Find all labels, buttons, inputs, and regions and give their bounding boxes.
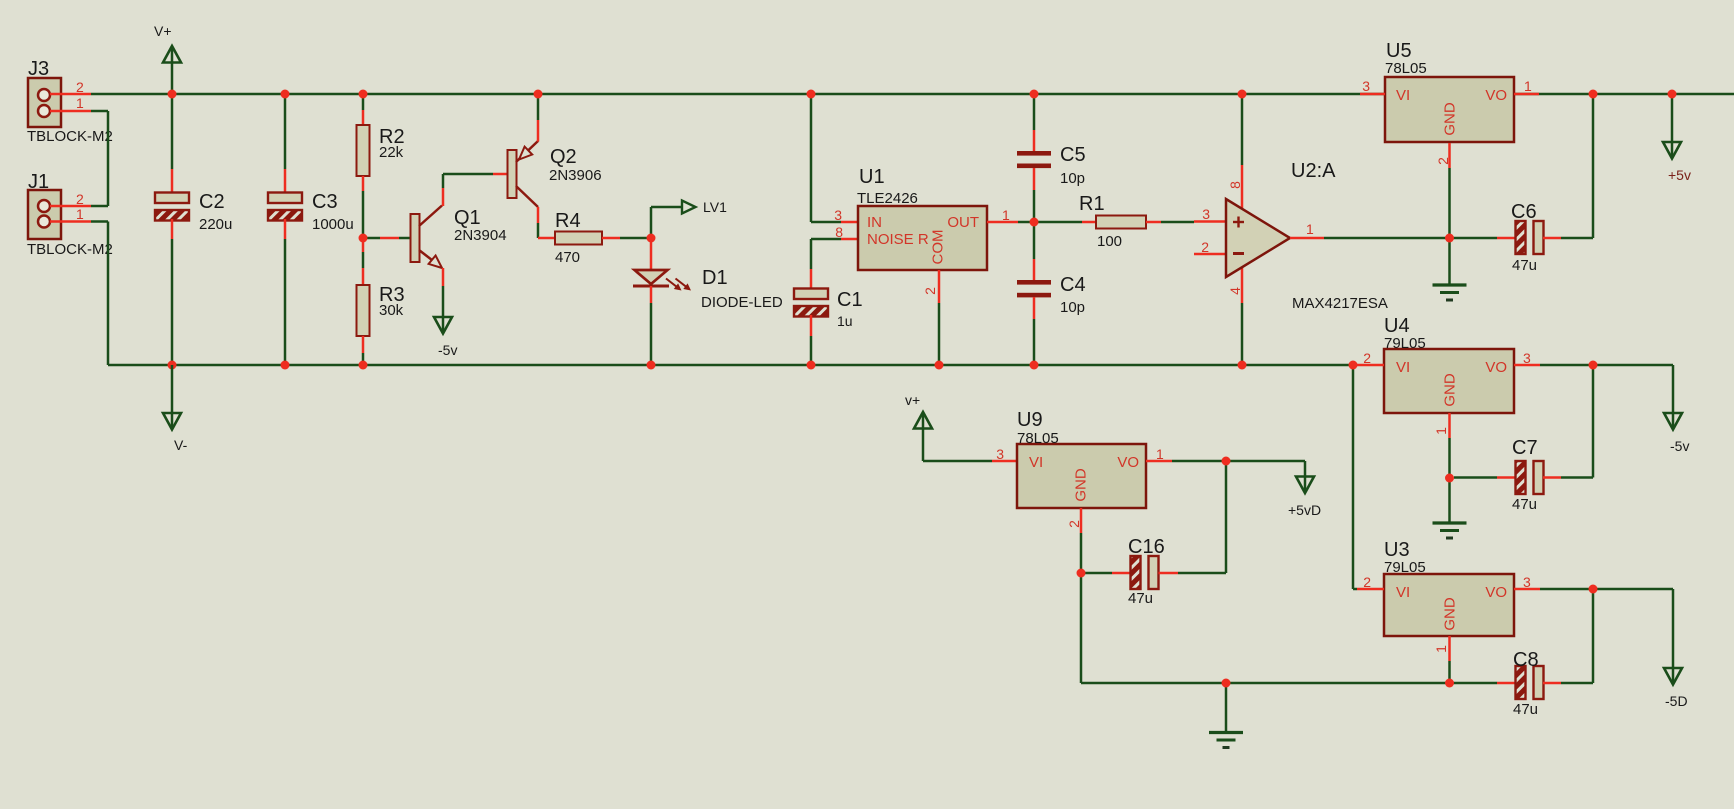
wire J3.1 to J1.2 vertical [107,111,110,206]
svg-text:U3: U3 [1384,539,1410,561]
transistor Q2 body bar [508,150,517,198]
terminal LV1 arrow [682,201,696,214]
C3 top pin [284,169,287,194]
Q2 collector line [516,186,538,207]
wire -5D stub [1672,589,1675,684]
U2 pin 2 lead [1194,253,1226,256]
wire +5vD stub [1304,461,1307,492]
U5 pin 1 lead [1514,93,1539,96]
svg-text:VO: VO [1485,87,1507,104]
wire U4 gnd stub [1448,478,1451,523]
capacitor C5 plate B [1017,164,1051,169]
voltage regulator U3 body [1384,574,1514,636]
C6 right pin [1543,237,1561,240]
C8 right pin [1543,682,1561,685]
capacitor C6 minus plate [1516,221,1526,254]
junction node U1 IN col [807,90,816,99]
U9 pin 3 lead [992,460,1017,463]
wire v+ to U9.VI [923,460,992,463]
Q2 collector pin [537,207,540,223]
C6 left pin [1497,237,1516,240]
ground (U4) [1433,521,1467,524]
D1 anode pin [650,240,653,271]
wire U1.IN horizontal [811,221,841,224]
R3 top pin2 [362,268,365,286]
wire C6 up to top bus [1592,94,1595,238]
svg-text:2: 2 [76,79,84,95]
svg-text:C8: C8 [1513,649,1539,671]
wire U9.GND wire [1080,533,1083,573]
U4 pin 3 lead [1514,364,1540,367]
U2 minus sign [1233,252,1244,255]
C2 bottom pin [171,219,174,239]
svg-text:8: 8 [835,224,843,240]
svg-text:1: 1 [1306,221,1314,237]
svg-text:-5v: -5v [438,342,457,358]
D1 cathode pin [650,286,653,303]
svg-text:C16: C16 [1128,536,1165,558]
junction node U4 gnd / C7 [1445,474,1454,483]
connector J1 body [28,190,61,239]
J3 pin holes [38,89,50,101]
wire U3.VO wire [1540,588,1673,591]
svg-text:VI: VI [1029,454,1043,471]
svg-text:U2:A: U2:A [1291,160,1336,182]
wire gnd stub (digital) [1225,683,1228,733]
junction node C5 top [1030,90,1039,99]
C8 left pin [1497,682,1516,685]
svg-text:C6: C6 [1511,201,1537,223]
junction node U1 COM [935,361,944,370]
junction node +5v [1668,90,1677,99]
wire Q1 collector up [442,174,445,188]
svg-text:1: 1 [1433,645,1449,653]
wire R3 bottom wire [362,353,365,365]
U4 pin 1 lead [1448,413,1451,438]
svg-text:1: 1 [1433,427,1449,435]
wire V- bottom bus [108,364,1353,367]
power terminal +5vD [1296,477,1314,494]
wire U2 out wire [1324,237,1450,240]
svg-text:C3: C3 [312,191,338,213]
wire C2 top wire [171,94,174,169]
U1 pin 3 lead [841,221,858,224]
J3 pin 2 lead [50,93,91,96]
capacitor C7 minus plate [1516,461,1526,494]
power terminal V+ [171,46,174,94]
wire U4.VO wire [1540,364,1673,367]
R2 top pin [362,110,365,126]
wire C16 up to U9.VO [1225,461,1228,573]
wire U9 gnd to C16 [1081,572,1112,575]
capacitor C5 plate A [1017,151,1051,156]
svg-text:J1: J1 [28,171,49,193]
wire U9.GND down [1080,573,1083,683]
resistor R2 body [357,125,370,176]
svg-text:GND: GND [1442,373,1459,407]
svg-text:3: 3 [996,446,1004,462]
C5 top pin [1033,130,1036,151]
svg-text:V-: V- [174,437,188,453]
Q2 emitter arrowhead [519,147,532,160]
diode D1 triangle [635,270,668,284]
junction node U2 out / U5 gnd [1445,234,1454,243]
R3 bottom pin [362,336,365,353]
svg-text:22k: 22k [379,144,404,161]
svg-text:47u: 47u [1128,590,1153,607]
junction node R3 bottom [359,361,368,370]
wire U2 pin 4 wire [1241,303,1244,365]
ground (U5) [1433,283,1467,286]
wire C16 right wire [1178,572,1226,575]
wire C4 top wire [1033,222,1036,259]
wire V+ top bus [91,93,1734,96]
R1 right pin [1146,221,1161,224]
Q1 base pin [380,237,399,240]
svg-text:C2: C2 [199,191,225,213]
wire J3.1 to J1.2 horizontal [91,110,108,113]
junction node C3 top [281,90,290,99]
C4 bottom pin [1033,297,1036,319]
R4 left pin [538,237,555,240]
junction node U2 pin4 [1238,361,1247,370]
svg-text:GND: GND [1073,468,1090,502]
wire Q2 collector wire [537,223,540,238]
R3 top pin [362,238,365,252]
wire J1.2 wire [91,205,108,208]
capacitor C3 minus plate [268,210,302,221]
C4 top pin [1033,259,1036,280]
svg-text:1: 1 [1156,446,1164,462]
svg-text:470: 470 [555,249,580,266]
capacitor C8 minus plate [1516,666,1526,699]
wire C7 right wire [1561,476,1593,479]
wire v+ down [922,430,925,461]
svg-text:1: 1 [76,206,84,222]
svg-text:2: 2 [1066,520,1082,528]
wire V+ to U1.IN vertical [810,94,813,222]
svg-text:79L05: 79L05 [1384,335,1426,352]
capacitor C1 minus plate [794,306,828,317]
wire C4 bottom wire [1033,319,1036,365]
capacitor C16 minus plate [1131,556,1141,589]
junction node U4.VO / C7 [1589,361,1598,370]
svg-text:10p: 10p [1060,170,1085,187]
svg-text:-5v: -5v [1670,438,1689,454]
C16 right pin [1159,572,1179,575]
connector J3 body [28,78,61,127]
wire Q1 base wire [364,237,380,240]
svg-text:U1: U1 [859,166,885,188]
svg-text:DIODE-LED: DIODE-LED [701,294,783,311]
svg-text:2: 2 [76,191,84,207]
wire U5 gnd stub [1448,238,1451,285]
svg-text:1000u: 1000u [312,216,354,233]
junction node C1 bottom [807,361,816,370]
Q1 emitter arrowhead [429,256,442,269]
op-amp U2:A triangle [1226,199,1290,277]
U2 pin 1 lead [1290,237,1324,240]
wire J1.1 down to V- bus [107,222,110,366]
svg-text:R1: R1 [1079,193,1105,215]
svg-text:2: 2 [1435,157,1451,165]
C2 top pin [171,169,174,194]
capacitor C6 plus plate [1534,221,1544,254]
svg-text:VI: VI [1396,359,1410,376]
wire node to LV1 vertical [650,207,653,238]
svg-text:R4: R4 [555,210,581,232]
svg-text:3: 3 [1362,78,1370,94]
transistor Q1 body bar [411,214,420,262]
C1 top pin [810,269,813,290]
svg-text:2: 2 [1363,350,1371,366]
J3 pin 1 lead [50,110,91,113]
svg-text:IN: IN [867,214,882,231]
wire C1 top wire [810,239,813,269]
wire R2 bottom wire [362,191,365,238]
junction node U1 OUT / C5 / C4 [1030,218,1039,227]
U3 pin 2 lead [1357,588,1384,591]
svg-text:47u: 47u [1512,257,1537,274]
junction node U9.VO / +5vD [1222,457,1231,466]
wire U2 pin 8 wire [1241,94,1244,165]
svg-text:3: 3 [1523,574,1531,590]
wire U4.VI to U3.VI vertical [1352,365,1355,589]
wire digital bus to C8 [1450,682,1497,685]
Q1 emitter line [419,250,441,267]
U4 pin 2 lead [1357,364,1384,367]
svg-text:1: 1 [76,95,84,111]
wire U9.VO wire [1172,460,1305,463]
C1 bottom pin [810,315,813,336]
capacitor C4 plate B [1017,293,1051,298]
resistor R3 body [357,285,370,336]
svg-text:2N3906: 2N3906 [549,167,602,184]
svg-text:VO: VO [1117,454,1139,471]
junction node V+ / C2 [168,90,177,99]
R2 bottom pin [362,176,365,191]
junction node U3 gnd / C8 [1445,679,1454,688]
U5 pin 2 lead [1448,143,1451,168]
svg-text:C4: C4 [1060,274,1086,296]
wire U1.OUT wire [1018,221,1082,224]
svg-text:2: 2 [922,287,938,295]
svg-text:U9: U9 [1017,409,1043,431]
U1 pin 1 lead [987,221,1018,224]
junction node Q2 emitter [534,90,543,99]
svg-text:OUT: OUT [947,214,979,231]
svg-text:1: 1 [1524,78,1532,94]
wire U3.VI link [1353,588,1357,591]
junction node U3.VO / C8 [1589,585,1598,594]
C16 left pin [1112,572,1131,575]
junction node C3 bottom [281,361,290,370]
svg-text:78L05: 78L05 [1017,430,1059,447]
wire R4 to node [620,237,651,240]
junction node R2 top [359,90,368,99]
wire J1.1 wire [91,220,108,223]
wire R1 to op-amp [1161,221,1194,224]
wire C8 up to U3.VO [1592,589,1595,683]
wire C2 bottom wire [171,239,174,365]
svg-text:GND: GND [1442,102,1459,136]
R4 right pin [602,237,620,240]
wire C5 bottom wire [1033,190,1036,222]
svg-text:1u: 1u [837,313,853,329]
resistor R4 body [555,232,602,245]
svg-text:30k: 30k [379,302,404,319]
svg-text:v+: v+ [905,392,920,408]
capacitor C1 plus plate [794,289,828,300]
wire C3 top wire [284,94,287,169]
svg-text:GND: GND [1442,597,1459,631]
D1 light arrow 2 [676,279,688,289]
svg-text:VO: VO [1485,359,1507,376]
wire U4.GND wire [1448,438,1451,478]
svg-text:78L05: 78L05 [1385,60,1427,77]
svg-text:2N3904: 2N3904 [454,227,507,244]
svg-text:LV1: LV1 [703,199,727,215]
junction node V- / C2 [168,361,177,370]
svg-text:TLE2426: TLE2426 [857,190,918,207]
svg-text:U4: U4 [1384,315,1410,337]
svg-text:Q1: Q1 [454,207,481,229]
voltage regulator U4 body [1384,349,1514,413]
svg-text:8: 8 [1227,181,1243,189]
J1 pin 1 lead [50,220,91,223]
junction node U2 pin8 [1238,90,1247,99]
svg-text:MAX4217ESA: MAX4217ESA [1292,295,1388,312]
wire Q1 emitter to -5v [442,286,445,317]
svg-text:TBLOCK-M2: TBLOCK-M2 [27,128,113,145]
svg-text:C5: C5 [1060,144,1086,166]
wire C1 bottom wire [810,336,813,365]
svg-text:D1: D1 [702,267,728,289]
svg-text:47u: 47u [1513,701,1538,718]
C7 right pin [1543,476,1561,479]
junction node C4 bottom [1030,361,1039,370]
power terminal -5v [1664,413,1682,430]
svg-text:COM: COM [930,230,947,265]
svg-text:10p: 10p [1060,299,1085,316]
svg-text:+5vD: +5vD [1288,502,1321,518]
Q2 emitter line [516,141,538,162]
wire U5.GND wire [1448,168,1451,238]
wire +5v stub [1671,94,1674,158]
junction node U9 gnd / C16 [1077,569,1086,578]
J1 pin 2 lead [50,205,91,208]
wire out to C6 [1450,237,1497,240]
svg-text:220u: 220u [199,216,232,233]
wire U3.GND wire [1448,661,1451,683]
svg-text:-5D: -5D [1665,693,1688,709]
svg-text:3: 3 [834,207,842,223]
svg-text:V+: V+ [154,23,172,39]
J1 pin holes [38,200,50,212]
C3 bottom pin [284,219,287,239]
wire Q1 base wire 2 [399,237,411,240]
capacitor C8 plus plate [1534,666,1544,699]
wire C5 top wire [1033,94,1036,130]
wire D1 to V- bus [650,303,653,365]
resistor R1 body [1096,216,1146,229]
svg-text:1: 1 [1002,207,1010,223]
U9 pin 2 lead [1080,508,1083,533]
U2 pin 3 lead [1194,220,1226,223]
capacitor C2 plus plate [155,193,189,204]
svg-text:4: 4 [1227,287,1243,295]
U9 pin 1 lead [1146,460,1172,463]
svg-text:VO: VO [1485,584,1507,601]
svg-text:VI: VI [1396,584,1410,601]
U3 pin 3 lead [1514,588,1540,591]
U2 plus sign [1233,221,1244,223]
svg-text:100: 100 [1097,233,1122,250]
capacitor C2 minus plate [155,210,189,221]
svg-text:47u: 47u [1512,496,1537,513]
U5 pin 3 lead [1360,93,1385,96]
svg-text:J3: J3 [28,58,49,80]
svg-text:C7: C7 [1512,437,1538,459]
ground (digital) [1209,731,1243,734]
svg-text:TBLOCK-M2: TBLOCK-M2 [27,241,113,258]
Q1 emitter pin [442,268,445,286]
svg-text:Q2: Q2 [550,146,577,168]
wire C6 to V+ corner [1561,237,1593,240]
R1 left pin [1082,221,1096,224]
Q2 base pin [493,173,508,176]
wire U4 gnd to C7 [1454,476,1497,479]
capacitor C3 plus plate [268,193,302,204]
U2 pin 4 lead [1241,267,1244,303]
Q1 collector line [419,206,442,227]
svg-text:U5: U5 [1386,40,1412,62]
U1 pin 2 lead [938,270,941,303]
power terminal +5v [1663,142,1681,159]
junction node C6 top [1589,90,1598,99]
power terminal v+ [922,412,925,430]
wire Q2 emitter wire [537,94,540,120]
D1 cathode bar [633,285,669,288]
wire R2 top wire [362,94,365,110]
svg-text:79L05: 79L05 [1384,559,1426,576]
Q1 collector pin [442,188,445,206]
wire C7 up to U4.VO [1592,365,1595,478]
junction node V- to U4 [1349,361,1358,370]
capacitor C16 plus plate [1149,556,1159,589]
power terminal V- [163,413,181,430]
junction node D1 bottom [647,361,656,370]
wire U1.NOISER horizontal [811,238,841,241]
svg-text:3: 3 [1523,350,1531,366]
svg-text:2: 2 [1201,239,1209,255]
junction node R4/LV1/D1 [647,234,656,243]
voltage regulator U5 body [1385,77,1514,142]
voltage regulator U9 body [1017,444,1146,508]
svg-text:3: 3 [1202,206,1210,222]
Q2 emitter pin [537,120,540,142]
junction node digital gnd [1222,679,1231,688]
wire C8 right wire [1561,682,1593,685]
U1 pin 8 lead [841,238,858,241]
wire LV1 horizontal [651,206,682,209]
wire V- stub [171,365,174,429]
wire -5v stub [1672,365,1675,429]
svg-text:C1: C1 [837,289,863,311]
U2 pin 8 lead [1241,165,1244,209]
D1 light arrow 1 [666,279,678,289]
wire U1.COM to V- bus [938,303,941,365]
